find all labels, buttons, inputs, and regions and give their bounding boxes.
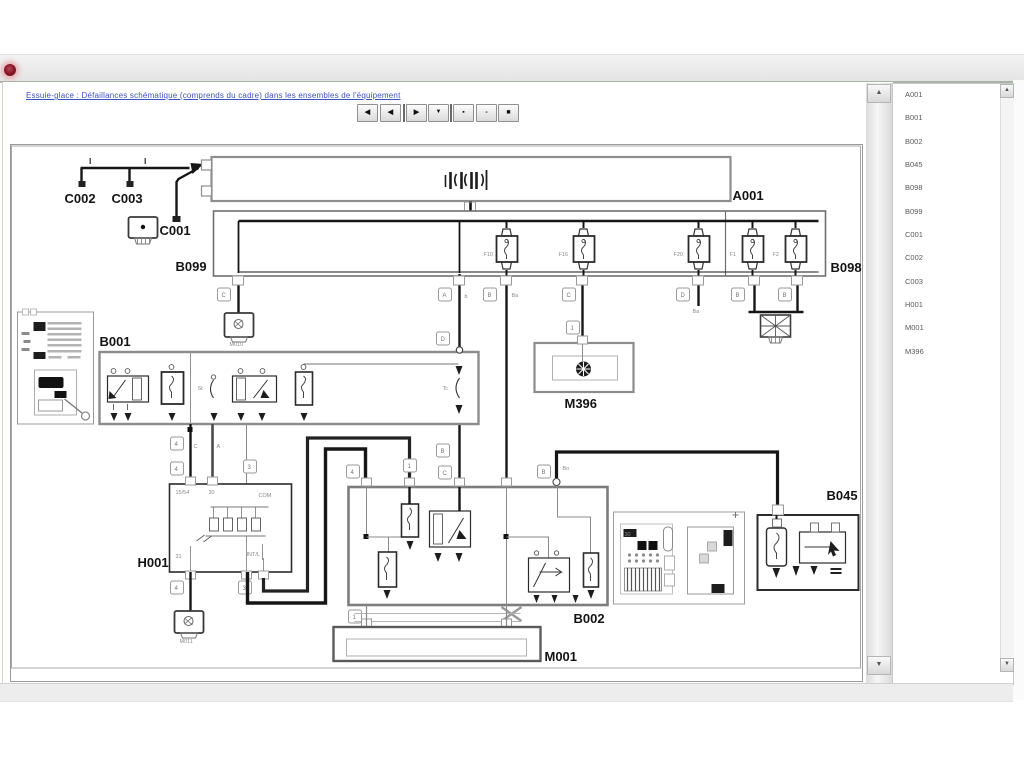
svg-text:H001: H001 — [138, 555, 169, 570]
svg-text:30: 30 — [625, 532, 631, 538]
svg-text:B099: B099 — [176, 259, 207, 274]
fuse F2 in B099 — [559, 222, 595, 276]
wire name Ba (506) — [512, 293, 520, 299]
pin label 4 (a) — [171, 437, 184, 450]
pin label C (wire238) — [218, 288, 231, 301]
wire B099 down (trunk 459) — [458, 274, 460, 487]
wire H001 to B002 (outer loop) — [248, 449, 366, 603]
relay B002-K2 — [529, 551, 579, 603]
pin label 4 (inner loop at B002) — [347, 465, 360, 478]
svg-text:15/54: 15/54 — [176, 490, 190, 496]
svg-text:B045: B045 — [827, 488, 858, 503]
pin tab B045 top — [773, 505, 784, 515]
relay K1 in B001 — [108, 369, 149, 421]
label B099 — [176, 259, 207, 274]
svg-text:31: 31 — [176, 554, 182, 560]
svg-text:C003: C003 — [112, 191, 143, 206]
fuse comb symbol inside A001 — [446, 170, 487, 190]
junction ring on B001 top — [456, 347, 462, 353]
pin label 1 (B002 bottom) — [349, 610, 362, 623]
legend text grid — [48, 322, 82, 359]
svg-text:C: C — [443, 471, 448, 477]
switch on trunk wire in B001 — [443, 366, 463, 414]
pin tick 1 (C003) — [145, 158, 147, 164]
pin label 3 (H001 bottom) — [239, 581, 252, 594]
legend pointer with circle — [65, 399, 90, 420]
legend white slot — [39, 400, 63, 411]
legend left glyphs — [22, 332, 31, 351]
relay box B045 — [758, 515, 859, 590]
pin label B — [484, 288, 497, 301]
svg-text:M396: M396 — [565, 396, 598, 411]
motor symbol in M396 — [576, 362, 591, 377]
internal wiring B002 — [367, 487, 591, 558]
junction box B099 / B098 outline — [214, 211, 826, 276]
wire B098 to connector (left leg) — [753, 276, 755, 312]
label B045 — [827, 488, 858, 503]
relay K2 in B001 — [233, 369, 277, 421]
relay B002-K1 — [430, 487, 471, 562]
legend black chip 2 — [34, 352, 46, 359]
wire B002 to B045 — [557, 452, 778, 506]
ground terminal C002 — [79, 181, 86, 187]
wire B001 to H001 (gray) — [211, 424, 214, 484]
ground connector icon below B099 — [225, 313, 254, 348]
svg-text:C001: C001 — [160, 223, 191, 238]
svg-text:Ba: Ba — [512, 293, 520, 299]
control unit A001 — [202, 157, 731, 201]
junction ring on B002 top — [553, 479, 560, 486]
pin tab wire238 — [233, 276, 244, 285]
svg-text:A: A — [443, 293, 447, 299]
svg-text:F2: F2 — [773, 252, 779, 258]
svg-text:F10: F10 — [484, 252, 493, 258]
pin tabs B002 top — [362, 478, 512, 486]
wire C001 end cap — [173, 216, 181, 222]
wire B099 to ground icon — [237, 276, 239, 313]
pin label 4 (H001 bottom) — [171, 581, 184, 594]
svg-text:C: C — [194, 444, 198, 450]
pin label A — [439, 288, 452, 301]
wire B001 to H001 (black) — [188, 424, 193, 484]
legend black bar small — [55, 391, 67, 398]
label B001 — [100, 334, 131, 349]
fuse B002-F1 — [402, 487, 419, 550]
X mark below B002 — [502, 607, 522, 621]
svg-text:M010: M010 — [230, 342, 244, 348]
label C002 — [65, 191, 96, 206]
control unit H001 — [170, 484, 292, 572]
legend black bar large — [39, 377, 64, 388]
wire stub 698 — [693, 276, 701, 315]
pin label 1 (outer loop at B002) — [404, 459, 417, 472]
wire name C — [194, 444, 198, 450]
wire B002 to M001 (left) — [366, 605, 368, 627]
svg-text:INT/L: INT/L — [247, 552, 260, 558]
label C001 — [160, 223, 191, 238]
relay box B001 — [100, 352, 479, 424]
svg-text:D: D — [441, 337, 446, 343]
svg-text:B002: B002 — [574, 611, 605, 626]
svg-text:F20: F20 — [674, 252, 683, 258]
svg-text:Tc: Tc — [443, 386, 449, 392]
fuse F5 in B098 — [773, 222, 807, 276]
label H001 — [138, 555, 169, 570]
pin tab M396 — [578, 336, 588, 344]
pin label B (754) — [732, 288, 745, 301]
svg-text:F16: F16 — [559, 252, 568, 258]
wire name b (459) — [465, 294, 468, 300]
thermal switch in B001 — [198, 375, 218, 421]
fuse/relay box B002 — [349, 487, 608, 605]
svg-text:C: C — [222, 293, 227, 299]
fuse F4 in B098 — [730, 222, 764, 276]
pin tabs H001 — [186, 477, 269, 579]
wire B099 to M396 — [581, 276, 583, 337]
svg-text:C002: C002 — [65, 191, 96, 206]
pin label B (B045 wire) — [538, 465, 551, 478]
wire H001 to ground — [189, 572, 191, 611]
ground connector icon below H001 — [175, 611, 204, 645]
label B098 — [831, 260, 862, 275]
svg-text:B001: B001 — [100, 334, 131, 349]
inset fusebox illustration — [621, 524, 675, 594]
wire H001 to B002 (inner loop) — [264, 438, 410, 591]
pin label D — [677, 288, 690, 301]
pin tab M001 right — [502, 619, 512, 627]
svg-text:A001: A001 — [733, 188, 764, 203]
pin label C (trunk459 at B002) — [439, 466, 452, 479]
svg-text:F1: F1 — [730, 252, 736, 258]
pin tab M001 left — [362, 619, 372, 627]
pin label 1 (M396) — [567, 321, 580, 334]
pin arrow B045 center — [793, 566, 800, 576]
svg-text:B: B — [488, 293, 492, 299]
inset comb stripes — [625, 568, 662, 591]
wire B002 to M001 (right) — [506, 605, 508, 627]
svg-text:Bo: Bo — [563, 466, 570, 472]
svg-text:B: B — [542, 470, 546, 476]
svg-text:B: B — [736, 293, 740, 299]
wire C002/C003 ground bus — [81, 168, 199, 218]
svg-text:COM: COM — [259, 493, 272, 499]
svg-text:B: B — [783, 293, 787, 299]
label B002 — [574, 611, 605, 626]
fuse F3 in B099 — [674, 222, 710, 276]
wire B098 to connector (right leg) — [749, 276, 804, 312]
wire name Bo — [563, 466, 570, 472]
pin tab A001 bottom — [465, 202, 476, 211]
drawing frame — [12, 146, 861, 668]
fuse in B045 — [767, 515, 787, 578]
fuse F1 in B099 — [484, 222, 518, 276]
wire arrowhead into A001 — [191, 163, 204, 174]
svg-text:B: B — [441, 449, 445, 455]
legend inner detail box — [35, 370, 77, 415]
motor unit M396 — [535, 343, 634, 392]
svg-text:30: 30 — [209, 490, 215, 496]
svg-text:Ba: Ba — [693, 309, 701, 315]
svg-text:St: St — [198, 386, 204, 392]
legend inset box — [18, 309, 94, 424]
pin tabs below B099/B098 — [454, 276, 803, 285]
svg-text:M001: M001 — [545, 649, 578, 664]
pin label B (797) — [779, 288, 792, 301]
label M001 — [545, 649, 578, 664]
splice connector icon below B098 — [761, 315, 791, 343]
inset panel illustration — [688, 512, 739, 594]
fuse in B001 (right) — [296, 364, 459, 421]
svg-text:C: C — [567, 293, 572, 299]
wire B099 down (trunk 506) — [505, 276, 507, 487]
motor unit M001 — [334, 627, 541, 661]
wire trunk366 inside B002 — [364, 487, 369, 539]
pin row line below B002 — [355, 614, 521, 622]
wire A001 to B099 — [469, 201, 472, 222]
fuse B002-F2 — [379, 552, 397, 599]
pin label B (trunk459 below B001) — [437, 444, 450, 457]
pin tick 1 (C002) — [90, 158, 92, 164]
connector icon C001 — [129, 217, 158, 244]
wire trunk506 inside B002 — [504, 487, 509, 605]
ground terminal C003 — [127, 181, 134, 187]
label A001 — [733, 188, 764, 203]
fuse B002-F3 — [584, 553, 599, 599]
pin label 3 (c) — [244, 460, 257, 473]
fuse in B001 (left) — [162, 365, 184, 421]
label C003 — [112, 191, 143, 206]
svg-text:A: A — [217, 444, 221, 450]
wire name A — [217, 444, 221, 450]
label M396 — [565, 396, 598, 411]
inset detail box — [614, 512, 745, 604]
inset dot grid — [628, 553, 659, 562]
bus bar inside B099 — [239, 221, 819, 273]
svg-text:b: b — [465, 294, 468, 300]
svg-text:M011: M011 — [180, 639, 193, 645]
svg-text:B098: B098 — [831, 260, 862, 275]
pin label 4 (b) — [171, 462, 184, 475]
wire B001 to H001 (thin) — [246, 424, 248, 484]
svg-text:D: D — [681, 293, 686, 299]
pin label C — [563, 288, 576, 301]
relay in B045 — [800, 523, 846, 575]
pin label D (trunk459 above B001) — [437, 332, 450, 345]
legend black chip 1 — [34, 322, 46, 331]
